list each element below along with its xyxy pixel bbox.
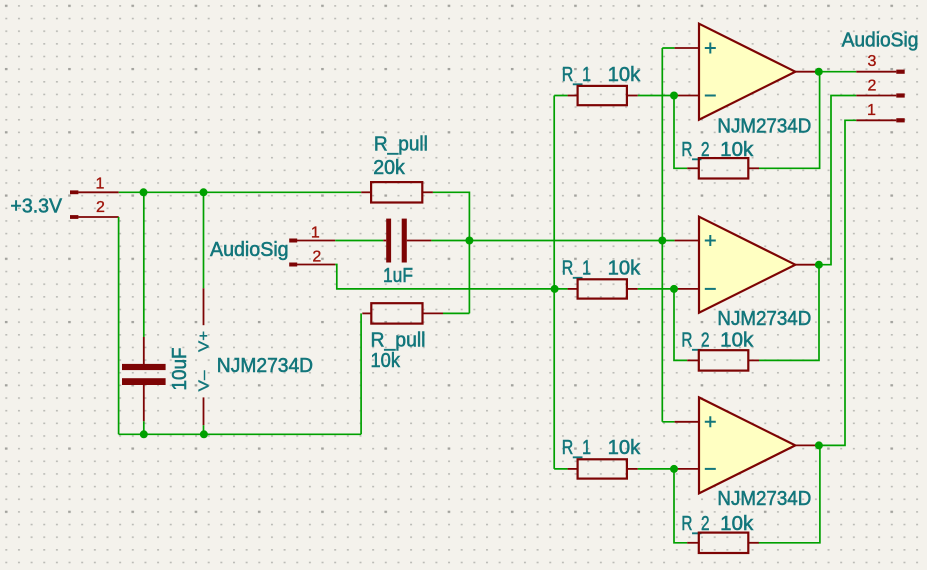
wire pin2 down leg: [118, 217, 120, 434]
svg-text:2: 2: [96, 199, 105, 216]
svg-text:AudioSig: AudioSig: [842, 30, 919, 52]
junction (143.8,434.3): [140, 430, 148, 438]
wire R4 left down to bottom rail: [360, 313, 362, 434]
svg-text:NJM2734D: NJM2734D: [717, 308, 811, 330]
resistor R5 10k (middle): [568, 279, 638, 298]
junction (818.9,264.7): [815, 261, 823, 269]
svg-text:V–: V–: [196, 370, 213, 392]
wire U1A output: [817, 71, 856, 73]
svg-text:10uF: 10uF: [169, 348, 191, 391]
svg-text:3: 3: [868, 53, 877, 70]
wire U1C output: [817, 120, 856, 445]
junction (818.9,445.4): [815, 441, 823, 449]
wire +3.3V rail: [119, 191, 362, 193]
label R_1 10k (top): [562, 64, 642, 86]
svg-text:1: 1: [95, 175, 104, 192]
junction (469.4,240.5): [465, 237, 473, 245]
resistor R8 10k (bottom feedback): [687, 533, 759, 553]
connector J2 pin 1: [289, 225, 335, 243]
svg-text:R_pull: R_pull: [374, 133, 428, 155]
label R_pull 20k: [373, 133, 428, 179]
junction (818.8,71.7): [815, 68, 823, 76]
wire U1B output: [817, 96, 856, 265]
wire R7 to minus node (bottom): [638, 468, 675, 470]
capacitor C2 1uF: [383, 219, 431, 263]
label R_2 10k (middle): [681, 330, 754, 352]
junction (662.3,240.5): [658, 237, 666, 245]
resistor R7 10k (bottom): [568, 459, 638, 478]
junction (674,95.5): [670, 92, 678, 100]
label R_2 10k (top): [681, 139, 754, 161]
junction (143.5,192.3): [140, 188, 148, 196]
svg-text:10k: 10k: [608, 64, 642, 86]
svg-text:R_1: R_1: [562, 64, 591, 86]
label R_2 10k (bottom): [681, 513, 754, 535]
svg-text:2: 2: [868, 78, 877, 95]
wire R2 to output (top): [759, 72, 820, 169]
op-amp U1C (bottom): [675, 397, 817, 493]
svg-text:R_pull: R_pull: [371, 329, 426, 351]
svg-text:NJM2734D: NJM2734D: [217, 355, 313, 377]
label R_1 10k (bottom): [562, 437, 642, 459]
wire R3 right to C2 node and down to R4: [433, 192, 470, 313]
wire bottom rail: [119, 433, 362, 435]
svg-text:R_1: R_1: [562, 437, 591, 459]
wire R8 to output (bottom): [759, 445, 820, 542]
junction (674,288.9): [670, 285, 678, 293]
label R_1 10k (middle): [562, 257, 642, 279]
svg-text:1: 1: [311, 225, 320, 242]
junction (203.5,192.3): [200, 188, 208, 196]
wire plus input bus: [662, 48, 674, 422]
resistor R2 10k (top feedback): [687, 158, 759, 178]
resistor R6 10k (middle feedback): [687, 350, 759, 370]
svg-text:10k: 10k: [371, 350, 401, 372]
wire R1 to minus node (top): [638, 95, 675, 97]
svg-text:R_2: R_2: [681, 330, 709, 352]
label R_pull 10k: [371, 329, 426, 372]
resistor R4 R_pull 10k: [362, 303, 443, 323]
wire input pin2 to R_1 bus: [335, 265, 567, 289]
svg-text:NJM2734D: NJM2734D: [717, 488, 811, 510]
wire minus node to R2 (bottom): [674, 469, 687, 543]
svg-text:V+: V+: [196, 331, 213, 352]
svg-text:20k: 20k: [373, 157, 406, 179]
wire C2 out to plus bus: [431, 240, 662, 242]
svg-text:R_1: R_1: [562, 257, 591, 279]
resistor R3 R_pull 20k: [361, 182, 433, 202]
svg-text:1uF: 1uF: [383, 265, 413, 287]
svg-text:10k: 10k: [608, 257, 642, 279]
svg-text:1: 1: [867, 102, 876, 119]
resistor R1 10k (top): [568, 86, 638, 105]
connector J2 pin 2: [289, 249, 335, 267]
svg-text:+3.3V: +3.3V: [10, 196, 62, 218]
capacitor C1 10uF: [122, 192, 166, 434]
svg-text:AudioSig: AudioSig: [210, 239, 289, 261]
junction (554.6,288.9): [551, 285, 559, 293]
svg-text:2: 2: [312, 249, 321, 266]
connector J1 pin 1: [70, 175, 119, 194]
wire R_1 bus vertical: [554, 96, 567, 469]
connector J1 pin 2: [70, 199, 119, 219]
connector J3 pin 1: [856, 102, 904, 122]
wire minus node to R2 (top): [674, 96, 687, 169]
svg-text:10k: 10k: [720, 330, 754, 352]
junction (203.9,434.3): [200, 430, 208, 438]
junction (674,468.9): [670, 465, 678, 473]
wire R6 to output (middle): [759, 265, 819, 361]
op-amp U1 power pins: [203, 192, 205, 434]
svg-text:NJM2734D: NJM2734D: [717, 116, 811, 138]
wire R4 right to node: [443, 312, 469, 314]
svg-text:10k: 10k: [608, 437, 642, 459]
wire R5 to minus node (middle): [638, 288, 675, 290]
op-amp U1A (top): [675, 24, 817, 120]
wire input pin1 to C2: [335, 240, 383, 242]
op-amp U1B (middle): [675, 217, 817, 313]
connector J3 pin 3: [856, 53, 904, 74]
wire minus node to R2 (middle): [674, 289, 687, 361]
connector J3 pin 2: [856, 78, 904, 98]
